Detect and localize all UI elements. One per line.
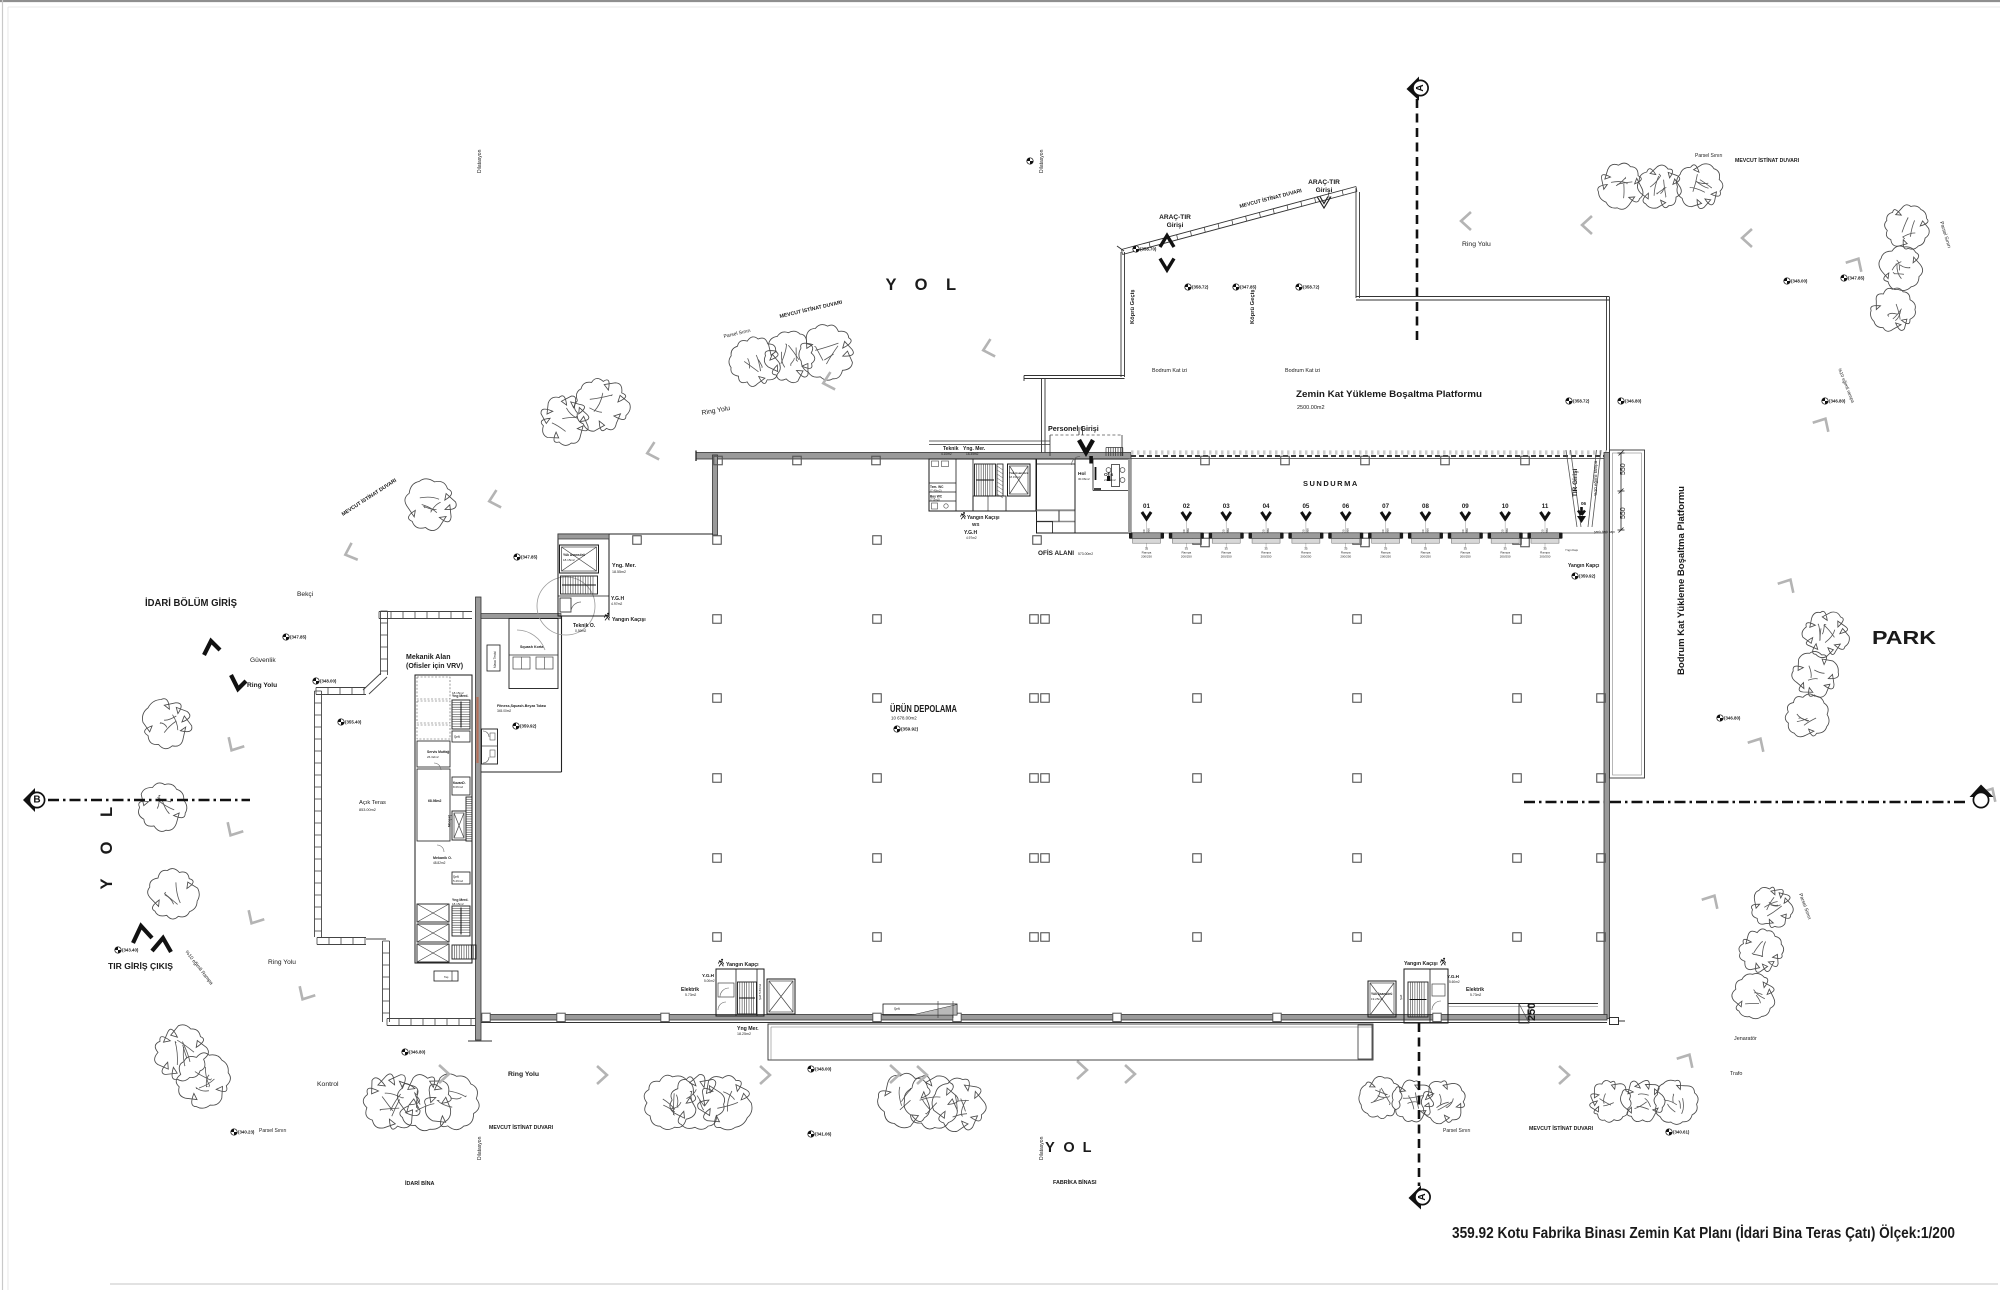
svg-text:(346.80): (346.80)	[1724, 716, 1741, 721]
svg-text:Bekçi: Bekçi	[297, 591, 314, 598]
svg-text:Dilatasyon: Dilatasyon	[477, 149, 483, 173]
column ticks on south wall	[482, 1013, 490, 1021]
tower elevator Yuk Asansoru	[560, 545, 599, 573]
section marker B right	[1970, 785, 1994, 808]
svg-text:5.73m2: 5.73m2	[1470, 993, 1481, 997]
svg-text:MEVCUT İSTİNAT DUVARI: MEVCUT İSTİNAT DUVARI	[1529, 1125, 1594, 1132]
svg-text:4.10m2: 4.10m2	[941, 452, 952, 456]
svg-text:18.15m2: 18.15m2	[452, 691, 464, 695]
monsarj elevator	[452, 811, 466, 840]
svg-text:Yangın Kapçı: Yangın Kapçı	[726, 962, 759, 968]
service stairs	[975, 464, 996, 496]
guvenlik arrows	[204, 641, 220, 655]
elevation markers right side	[1784, 278, 1790, 284]
550 dimension line	[1620, 453, 1622, 530]
seft ramp inside hall at south wall	[883, 1004, 957, 1015]
svg-text:İDARİ BÖLÜM GİRİŞ: İDARİ BÖLÜM GİRİŞ	[145, 596, 237, 609]
svg-text:30.06m2: 30.06m2	[1078, 477, 1090, 481]
terrace parapet diagonal connector	[363, 673, 387, 694]
SE corner foot	[1610, 1018, 1619, 1025]
office vertical walls	[1074, 459, 1076, 533]
svg-text:Köprü Geçiş: Köprü Geçiş	[1130, 290, 1136, 324]
terrace parapet wall upper-left vertical	[381, 611, 388, 675]
basement loading platform east	[1610, 450, 1645, 778]
svg-text:573.00m2: 573.00m2	[1078, 552, 1093, 556]
svg-text:18.55m2: 18.55m2	[612, 570, 626, 574]
svg-text:250: 250	[1526, 1003, 1538, 1021]
svg-text:Parsel Sınırı: Parsel Sınırı	[1443, 1128, 1471, 1134]
svg-text:Dilatasyon: Dilatasyon	[1039, 1136, 1045, 1160]
svg-text:B: B	[33, 795, 40, 806]
svg-text:(347.85): (347.85)	[1848, 276, 1865, 281]
svg-text:L: L	[946, 276, 956, 294]
svg-text:(359.92): (359.92)	[901, 727, 919, 732]
svg-text:SUNDURMA: SUNDURMA	[1303, 479, 1359, 488]
svg-text:Ring Yolu: Ring Yolu	[1462, 241, 1491, 248]
svg-text:200/250: 200/250	[1261, 555, 1272, 559]
svg-text:Monşarj: Monşarj	[448, 815, 452, 827]
svg-text:03: 03	[1223, 503, 1230, 510]
svg-text:(346.80): (346.80)	[1829, 399, 1846, 404]
svg-text:0.50m2: 0.50m2	[575, 629, 586, 633]
TIR girisi ramp funnel	[1566, 450, 1581, 527]
svg-text:(347.85): (347.85)	[521, 555, 538, 560]
svg-text:(340.61): (340.61)	[1673, 1130, 1690, 1135]
service shaft hatched	[997, 464, 1003, 496]
SE labels	[1440, 958, 1445, 966]
svg-text:FABRİKA BİNASI: FABRİKA BİNASI	[1053, 1179, 1097, 1186]
svg-text:Ring Yolu: Ring Yolu	[508, 1071, 539, 1078]
svg-text:Yng. Mer.: Yng. Mer.	[612, 563, 636, 569]
mekanik mid stairs	[466, 797, 472, 841]
svg-text:Zemin Kat Yükleme Boşaltma Pla: Zemin Kat Yükleme Boşaltma Platformu	[1296, 389, 1482, 399]
svg-text:Dilatasyon: Dilatasyon	[1039, 149, 1045, 173]
svg-text:(358.72): (358.72)	[1573, 399, 1590, 404]
svg-text:Y: Y	[98, 878, 116, 889]
svg-text:06: 06	[1581, 501, 1587, 506]
svg-text:Trafo: Trafo	[1730, 1071, 1742, 1077]
svg-text:Ring Yolu: Ring Yolu	[268, 959, 296, 966]
svg-text:200/250: 200/250	[1181, 555, 1192, 559]
svg-text:(347.85): (347.85)	[290, 635, 307, 640]
svg-text:06: 06	[1342, 503, 1349, 510]
svg-text:Servis Mutfağı: Servis Mutfağı	[427, 750, 450, 754]
svg-text:Y.G.H: Y.G.H	[1447, 974, 1460, 979]
svg-text:200/250: 200/250	[1340, 555, 1351, 559]
svg-text:(355.40): (355.40)	[345, 720, 362, 725]
svg-text:(343.40): (343.40)	[122, 948, 139, 953]
svg-text:18.35m2: 18.35m2	[966, 452, 979, 456]
elevation markers top	[1133, 246, 1139, 252]
personel girisi walkway	[1050, 434, 1122, 436]
svg-text:Şaft 5.86m2: Şaft 5.86m2	[758, 983, 762, 1000]
svg-text:200/250: 200/250	[1380, 555, 1391, 559]
servis mutfagi room	[417, 741, 450, 767]
svg-text:L: L	[98, 807, 116, 817]
svg-text:05: 05	[1302, 503, 1309, 510]
svg-text:Şeft: Şeft	[454, 735, 460, 739]
svg-text:MEVCUT İSTİNAT DUVARI: MEVCUT İSTİNAT DUVARI	[489, 1124, 554, 1131]
tower stairs	[561, 576, 598, 594]
section marker A top	[1407, 77, 1429, 101]
service inner partitions	[955, 459, 957, 511]
svg-text:19.25m2: 19.25m2	[1371, 997, 1383, 1001]
svg-text:O: O	[1063, 1140, 1074, 1156]
svg-text:09: 09	[1462, 503, 1469, 510]
svg-text:Squash Korta: Squash Korta	[520, 645, 544, 649]
svg-text:02: 02	[1183, 503, 1190, 510]
terrace parapet wall lower horizontal	[317, 938, 366, 945]
svg-text:10: 10	[1502, 503, 1509, 510]
svg-text:(348.00): (348.00)	[320, 679, 337, 684]
svg-text:18.25m2: 18.25m2	[737, 1032, 751, 1036]
wall corner cap at diagonal left end	[1117, 246, 1124, 251]
service elevator X	[1008, 464, 1031, 496]
svg-text:07: 07	[1382, 503, 1389, 510]
office step below	[1037, 522, 1053, 534]
svg-text:853.00m2: 853.00m2	[359, 808, 376, 812]
svg-text:İDARİ BİNA: İDARİ BİNA	[405, 1180, 434, 1187]
svg-text:Mekanik O.: Mekanik O.	[433, 856, 452, 860]
svg-text:Parsel Sınırı: Parsel Sınırı	[1695, 153, 1723, 159]
svg-text:%10 eğimli rampa: %10 eğimli rampa	[1593, 460, 1598, 496]
hatched shaft boxes	[417, 904, 449, 922]
svg-text:(358.70): (358.70)	[1140, 247, 1157, 252]
svg-text:(348.00): (348.00)	[815, 1067, 832, 1072]
svg-text:Fitness,Squash-Beyza Tolası: Fitness,Squash-Beyza Tolası	[497, 704, 546, 708]
building south wall (thick)	[477, 1015, 1607, 1021]
svg-text:Yngn Kapı: Yngn Kapı	[1565, 548, 1578, 552]
red accent on thick wall	[476, 697, 478, 763]
SE fire stair block	[1404, 969, 1448, 1023]
terrace parapet wall top	[379, 612, 472, 619]
svg-text:4.97m2: 4.97m2	[966, 536, 977, 540]
svg-text:(Ofisler için VRV): (Ofisler için VRV)	[406, 663, 463, 670]
lower stairs mekanik	[452, 906, 470, 936]
svg-text:18.15m2: 18.15m2	[452, 902, 464, 906]
svg-text:(347.85): (347.85)	[1240, 285, 1257, 290]
svg-text:Personel Girişi: Personel Girişi	[1048, 424, 1099, 433]
svg-text:Şaft: Şaft	[1399, 994, 1403, 1000]
svg-text:(358.72): (358.72)	[1303, 285, 1320, 290]
column squares at dock sill	[1201, 538, 1210, 547]
svg-text:Bodrum Kat izi: Bodrum Kat izi	[1285, 368, 1320, 374]
svg-text:Kontrol: Kontrol	[317, 1081, 339, 1088]
building east wall (thick)	[1604, 453, 1610, 1019]
svg-text:Şeft: Şeft	[894, 1007, 900, 1011]
squash court	[509, 619, 558, 689]
terrace parapet bottom horizontal	[387, 1019, 476, 1026]
table tennis box	[487, 645, 500, 671]
section line A (vertical dashed)	[1416, 99, 1419, 345]
walkway stairs	[1105, 448, 1107, 457]
svg-text:200/250: 200/250	[1500, 555, 1511, 559]
mekanik door arcs	[434, 763, 441, 770]
svg-text:18.15m2: 18.15m2	[563, 558, 575, 562]
svg-text:8.06m2: 8.06m2	[453, 785, 463, 789]
svg-text:A: A	[1415, 84, 1426, 91]
svg-text:Girişi: Girişi	[1167, 222, 1184, 229]
svg-text:5.00m2: 5.00m2	[704, 979, 715, 983]
dock sill line	[1131, 532, 1607, 534]
svg-text:200/250: 200/250	[1221, 555, 1232, 559]
wc fixtures	[932, 461, 939, 467]
svg-text:A: A	[1417, 1193, 1428, 1200]
svg-text:(340.23): (340.23)	[238, 1130, 255, 1135]
svg-text:(348.00): (348.00)	[1791, 279, 1808, 284]
svg-text:Yangın Kaçışı: Yangın Kaçışı	[612, 617, 646, 623]
svg-text:Parsel Sınırı: Parsel Sınırı	[259, 1128, 287, 1134]
small bottom stairs	[452, 945, 476, 959]
svg-text:Bodrum Kat izi: Bodrum Kat izi	[1152, 368, 1187, 374]
office block outline	[1037, 459, 1130, 533]
trees (landscape)	[1598, 163, 1643, 209]
elevation markers left/bottom	[283, 634, 289, 640]
mekanik dashed rooms	[417, 677, 450, 699]
svg-text:10 678.00m2: 10 678.00m2	[891, 716, 917, 721]
canopy lines above wall	[929, 440, 1050, 442]
svg-text:550: 550	[1620, 507, 1627, 519]
section line B (horizontal dash-dot)	[48, 799, 250, 802]
svg-text:TIR Girişi: TIR Girişi	[1572, 468, 1579, 497]
svg-text:(359.92): (359.92)	[1579, 574, 1596, 579]
kazan dairesi box	[452, 777, 470, 795]
svg-text:21.43m2: 21.43m2	[1104, 478, 1116, 482]
SE elevator Yuk Asansoru 19.25m2	[1368, 981, 1396, 1017]
north wall start tick	[695, 451, 697, 462]
svg-text:01: 01	[1143, 503, 1150, 510]
south elevator yuk asansoru	[767, 979, 795, 1014]
svg-text:5.29m2: 5.29m2	[453, 879, 463, 883]
hol entrance door	[1089, 456, 1093, 464]
section marker A bottom	[1409, 1186, 1431, 1210]
svg-text:ÜRÜN DEPOLAMA: ÜRÜN DEPOLAMA	[890, 702, 957, 715]
fitness block east wall	[561, 616, 563, 772]
fire exit icon + label	[718, 959, 723, 967]
large door-swing circles	[537, 577, 595, 635]
250 corridor	[1448, 1003, 1598, 1005]
svg-text:18.15m2: 18.15m2	[1009, 475, 1020, 479]
svg-text:(359.92): (359.92)	[520, 724, 537, 729]
svg-text:şarık bark kapı: şarık bark kapı	[1594, 530, 1615, 534]
svg-text:48.82m2: 48.82m2	[433, 861, 446, 865]
svg-text:(346.80): (346.80)	[1625, 399, 1642, 404]
service complex outline	[929, 459, 1036, 511]
svg-text:(341.06): (341.06)	[815, 1132, 832, 1137]
ofis door bar	[1095, 467, 1097, 480]
svg-text:68.98m2: 68.98m2	[428, 799, 441, 803]
svg-text:Y: Y	[885, 276, 896, 294]
svg-text:(7.5m2): (7.5m2)	[930, 498, 940, 502]
platform north edge	[1356, 296, 1610, 298]
svg-text:Güvenlik: Güvenlik	[250, 657, 276, 664]
west upper jog wall	[713, 455, 718, 535]
mekanik block outline	[415, 675, 472, 963]
svg-text:Dilatasyon: Dilatasyon	[477, 1136, 483, 1160]
svg-text:5.60m2: 5.60m2	[1449, 980, 1460, 984]
south access band (ramp road)	[768, 1024, 1373, 1060]
svg-text:04: 04	[1263, 503, 1270, 510]
svg-text:(7.40m2): (7.40m2)	[930, 489, 942, 493]
svg-text:WS: WS	[972, 522, 979, 527]
svg-text:Köprü Geçiş: Köprü Geçiş	[1250, 290, 1256, 324]
terrace parapet wall mid horizontal	[316, 688, 366, 695]
bridge-pass west wall (Kopru Gecis)	[1120, 252, 1122, 377]
svg-text:200/250: 200/250	[1540, 555, 1551, 559]
building north wall west segment (thick)	[696, 453, 1131, 460]
column grid squares	[714, 456, 723, 465]
svg-text:OFİS ALANI: OFİS ALANI	[1038, 548, 1074, 557]
svg-text:Yük Asansörü: Yük Asansörü	[563, 553, 585, 557]
svg-text:(346.80): (346.80)	[409, 1050, 426, 1055]
svg-text:11: 11	[1542, 503, 1549, 510]
svg-text:200/250: 200/250	[1141, 555, 1152, 559]
fitness block gray top band	[481, 614, 561, 619]
office desk and chairs	[1112, 465, 1120, 487]
svg-text:ARAÇ-TIR: ARAÇ-TIR	[1308, 179, 1340, 186]
platform upper-left step wall	[1024, 375, 1125, 377]
fitness block south wall	[481, 771, 562, 773]
svg-text:2500.00m2: 2500.00m2	[1297, 405, 1325, 411]
svg-text:L: L	[1083, 1140, 1092, 1156]
svg-text:Masa Tenisi: Masa Tenisi	[493, 651, 497, 668]
stair tower outline	[558, 534, 609, 616]
svg-text:PARK: PARK	[1872, 627, 1937, 648]
svg-text:550: 550	[1620, 463, 1627, 475]
svg-text:26.32m2: 26.32m2	[427, 755, 439, 759]
svg-text:08: 08	[1422, 503, 1429, 510]
svg-text:345.00m2: 345.00m2	[497, 709, 511, 713]
svg-text:Bodrum Kat Yükleme Boşaltma Pl: Bodrum Kat Yükleme Boşaltma Platformu	[1676, 486, 1686, 675]
svg-text:(358.72): (358.72)	[1192, 285, 1209, 290]
svg-text:5.73m2: 5.73m2	[685, 993, 696, 997]
svg-text:MEVCUT İSTİNAT DUVARI: MEVCUT İSTİNAT DUVARI	[1735, 157, 1800, 164]
svg-text:4.97m2: 4.97m2	[611, 602, 622, 606]
svg-text:Girişi: Girişi	[1316, 187, 1333, 194]
sheet border	[0, 0, 2000, 2]
personel girisi arrow	[1079, 440, 1093, 453]
svg-text:Yük Asansörü: Yük Asansörü	[1371, 992, 1392, 996]
wc block right of thick wall	[482, 729, 498, 764]
svg-text:Yangın Kapçı: Yangın Kapçı	[1568, 563, 1600, 569]
svg-text:Jenaratör: Jenaratör	[1734, 1036, 1757, 1042]
svg-text:Ring Yolu: Ring Yolu	[247, 682, 277, 689]
office left sub-room	[1037, 464, 1076, 510]
road direction chevrons	[981, 339, 995, 359]
terrace parapet wall west vertical	[315, 691, 322, 937]
tower lower room	[558, 595, 609, 597]
retaining wall diagonal (MEVCUT ISTINAT DUVARI)	[1123, 192, 1358, 255]
seft 2 box	[452, 872, 470, 884]
svg-text:TIR GİRİŞ ÇIKIŞ: TIR GİRİŞ ÇIKIŞ	[108, 961, 173, 971]
svg-text:Y: Y	[1045, 1140, 1055, 1156]
svg-text:Açık Teras: Açık Teras	[359, 800, 386, 806]
diagonal east end wall down to platform	[1355, 188, 1357, 298]
svg-text:O: O	[915, 276, 928, 294]
svg-text:Yangın Kaçışı: Yangın Kaçışı	[1404, 961, 1438, 967]
svg-text:Mekanik Alan: Mekanik Alan	[406, 654, 450, 661]
svg-text:Y.G.H: Y.G.H	[702, 973, 715, 978]
mekanik upper stair (Yng Merd)	[452, 700, 470, 729]
terrace parapet lower-left vertical	[383, 941, 390, 1022]
svg-text:Taş: Taş	[444, 975, 449, 979]
seft box	[452, 731, 470, 742]
south fire stair block	[716, 969, 764, 1016]
svg-text:ARAÇ-TIR: ARAÇ-TIR	[1159, 214, 1191, 221]
building north wall east segment (dashed thin)	[1131, 450, 1607, 454]
svg-text:O: O	[98, 841, 116, 854]
building west thick wall (terrace divider)	[476, 597, 482, 1040]
bench outside terrace	[434, 971, 458, 981]
svg-text:200/250: 200/250	[1460, 555, 1471, 559]
main mekanik room 68.98m2	[417, 769, 450, 841]
svg-text:Yangın Kaçışı: Yangın Kaçışı	[967, 515, 1000, 521]
svg-text:200/250: 200/250	[1300, 555, 1311, 559]
platform east edge (to building NE corner)	[1606, 297, 1608, 452]
lower small rooms	[973, 496, 1006, 511]
svg-text:200/250: 200/250	[1420, 555, 1431, 559]
svg-text:359.92 Kotu Fabrika Binası Zem: 359.92 Kotu Fabrika Binası Zemin Kat Pla…	[1452, 1225, 1955, 1242]
section marker B left	[23, 788, 45, 812]
